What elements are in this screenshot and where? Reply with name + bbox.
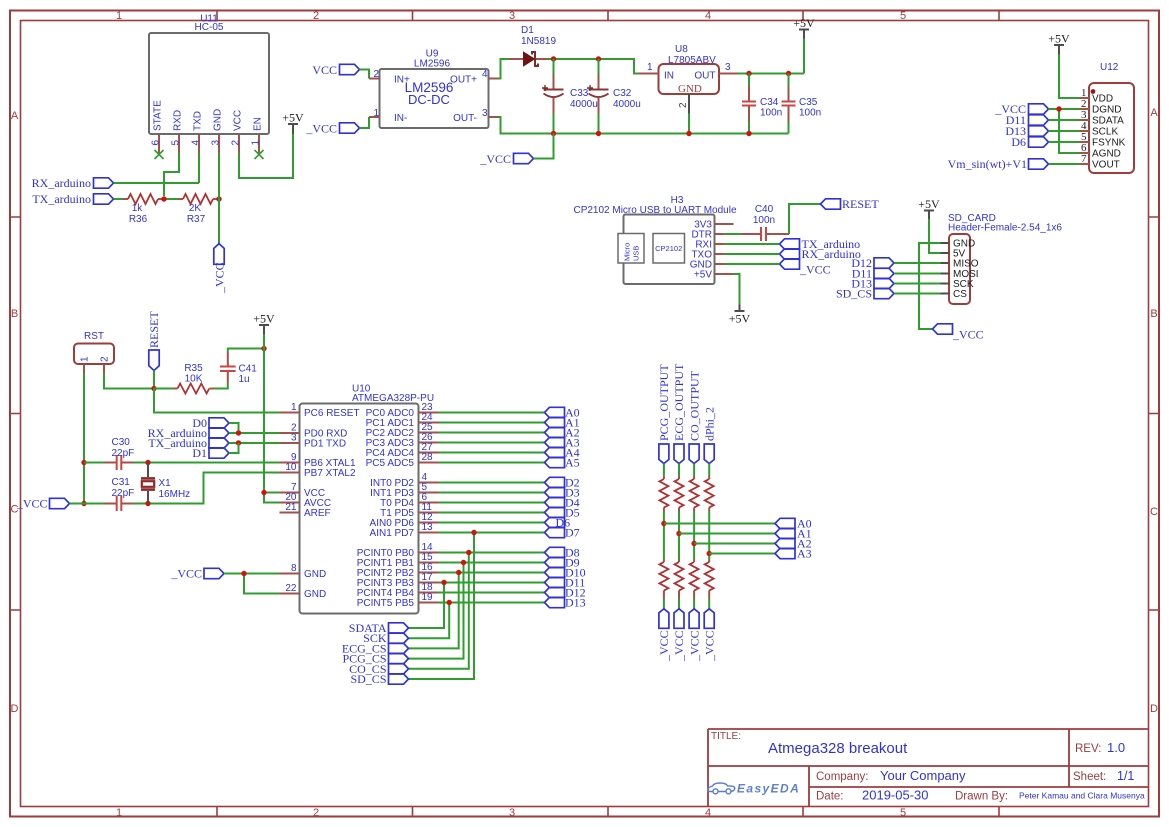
- junction node: [676, 531, 681, 536]
- U10 pin 24 PC1 ADC1: [419, 422, 439, 424]
- H3 pin TXO: [715, 253, 725, 255]
- net flag CO_CS: [349, 662, 408, 676]
- U11 pin 5 RXD: [178, 134, 180, 153]
- wire SD_CS to CS: [894, 293, 941, 295]
- net flag ECG_CS: [342, 641, 409, 655]
- U10 pin 20 AVCC: [280, 502, 300, 504]
- svg-text:+5V: +5V: [253, 312, 275, 326]
- SD pin GND: [941, 242, 950, 244]
- svg-text:_VCC: _VCC: [305, 122, 337, 136]
- svg-text:1.0: 1.0: [1107, 740, 1125, 755]
- junction node: [466, 550, 471, 555]
- power +5V (HC-05): [282, 111, 304, 135]
- net flag D12: [545, 586, 586, 600]
- svg-text:GND: GND: [678, 83, 702, 95]
- wire top rail C33 to C32: [599, 59, 640, 74]
- svg-text:A: A: [1150, 107, 1158, 119]
- wire U8 OUT rail: [738, 39, 805, 74]
- junction node: [786, 71, 791, 76]
- U11 pin 2 VCC: [238, 134, 240, 153]
- net flag TX_arduino (PD1): [148, 436, 229, 450]
- net flag A2: [545, 426, 580, 440]
- svg-text:VCC: VCC: [312, 63, 337, 77]
- svg-text:RST: RST: [84, 331, 104, 342]
- H3 pin +5V: [715, 273, 734, 275]
- wire to _VCC flag: [678, 599, 680, 609]
- svg-text:5: 5: [900, 807, 906, 819]
- svg-text:D6: D6: [1011, 135, 1026, 149]
- svg-text:1: 1: [116, 10, 122, 22]
- wire PCINT1 PB1 to D9: [439, 562, 545, 564]
- svg-text:3: 3: [291, 433, 297, 444]
- svg-text:16MHz: 16MHz: [159, 489, 191, 500]
- svg-text:4000u: 4000u: [613, 99, 641, 110]
- svg-text:PC6 RESET: PC6 RESET: [304, 408, 360, 419]
- net flag PCG_OUTPUT (vertical): [657, 364, 671, 464]
- junction node: [241, 571, 246, 576]
- net flag _VCC (below R37): [212, 244, 226, 294]
- wire R36 to R37: [163, 198, 178, 200]
- svg-text:3: 3: [482, 108, 488, 119]
- net flag A1: [775, 527, 812, 541]
- net flag ECG_OUTPUT (vertical): [672, 363, 686, 464]
- svg-text:3: 3: [211, 140, 222, 146]
- svg-text:D: D: [11, 703, 19, 715]
- wire divider mid: [708, 512, 710, 560]
- connector SD_CARD: [941, 213, 1063, 304]
- SD pin CS: [941, 293, 950, 295]
- svg-text:3: 3: [509, 10, 515, 22]
- svg-text:2: 2: [373, 69, 379, 80]
- net flag D3: [545, 486, 580, 500]
- junction node: [746, 71, 751, 76]
- svg-text:MISO: MISO: [953, 259, 979, 270]
- svg-text:R36: R36: [129, 214, 148, 225]
- capacitor C34 100n: [742, 74, 782, 134]
- svg-text:10: 10: [285, 462, 297, 473]
- svg-text:USB: USB: [632, 246, 641, 261]
- wire tap to A3: [709, 553, 775, 555]
- U10 pin 28 PC5 ADC5: [419, 462, 439, 464]
- wire PCINT0 PB0 to D8: [439, 552, 545, 554]
- svg-text:B: B: [11, 308, 18, 320]
- wire TXD vertical: [198, 153, 200, 183]
- net flag D10: [545, 566, 586, 580]
- wire RX_arduino to PD0: [229, 432, 280, 434]
- junction node: [261, 346, 266, 351]
- net flag A5: [545, 456, 580, 470]
- svg-text:+5V: +5V: [793, 16, 815, 30]
- svg-text:AREF: AREF: [304, 508, 331, 519]
- H3 pin 3V3: [715, 223, 734, 225]
- junction node: [151, 386, 156, 391]
- U12 pin 3 SDATA: [1079, 119, 1089, 121]
- junction node: [471, 530, 476, 535]
- junction node: [1056, 106, 1061, 111]
- crystal X1 16MHz: [141, 463, 190, 504]
- svg-text:HC-05: HC-05: [195, 22, 224, 33]
- svg-text:22pF: 22pF: [112, 448, 135, 459]
- svg-text:28: 28: [422, 452, 434, 463]
- H3 pin RXI: [715, 243, 725, 245]
- svg-text:Date:: Date:: [816, 791, 844, 803]
- svg-text:10K: 10K: [185, 374, 203, 385]
- svg-text:_VCC: _VCC: [16, 497, 48, 511]
- wire D0 to PD0: [229, 423, 239, 433]
- SD pin 5V: [941, 252, 950, 254]
- svg-text:_VCC: _VCC: [672, 630, 686, 662]
- svg-text:Peter Kamau and Clara Musenya: Peter Kamau and Clara Musenya: [1019, 791, 1145, 801]
- svg-text:Company:: Company:: [816, 771, 868, 783]
- title block: [708, 729, 1149, 807]
- svg-text:VOUT: VOUT: [1092, 160, 1120, 171]
- junction node: [236, 440, 241, 445]
- svg-text:4: 4: [705, 10, 711, 22]
- svg-text:_VCC: _VCC: [702, 630, 716, 662]
- wire bottom rail OUT-: [499, 117, 789, 134]
- wire RXD to RX_arduino: [164, 153, 179, 196]
- SD pin SCK: [941, 283, 950, 285]
- wire SCK tap: [409, 603, 450, 639]
- svg-text:A3: A3: [797, 547, 812, 561]
- svg-text:+5V: +5V: [729, 312, 751, 326]
- junction node: [161, 196, 166, 201]
- wire divider mid: [693, 512, 695, 560]
- svg-text:+5V: +5V: [1048, 32, 1070, 46]
- svg-text:R37: R37: [187, 214, 206, 225]
- svg-text:TX_arduino: TX_arduino: [32, 192, 91, 206]
- svg-text:+5V: +5V: [282, 111, 304, 125]
- resistor (upper, A1 divider): [675, 476, 684, 512]
- wire GND pin down to _VCC: [218, 153, 220, 244]
- wire _VCC row (C31): [70, 503, 105, 505]
- junction node: [261, 490, 266, 495]
- net flag Vm_sin(wt)+V1 (U12 VOUT): [948, 157, 1049, 171]
- svg-text:+5V: +5V: [918, 197, 940, 211]
- svg-text:D: D: [1150, 703, 1158, 715]
- wire tap to A1: [679, 533, 775, 535]
- module H3 CP2102: [573, 195, 736, 284]
- net flag _VCC (SD card): [933, 324, 984, 342]
- svg-text:_VCC: _VCC: [952, 328, 984, 342]
- junction node: [551, 131, 556, 136]
- resistor (upper, A2 divider): [690, 476, 699, 512]
- U10 pin 22 GND: [280, 593, 300, 595]
- wire D11 to SDATA: [1049, 119, 1080, 121]
- net flag _VCC (ATmega GND): [170, 567, 224, 581]
- U10 pin 2 PD0 RXD: [280, 432, 300, 434]
- U10 pin 16 PCINT2 PB2: [419, 572, 439, 574]
- wire CO_CS tap: [409, 553, 469, 669]
- wire reset node to PC6: [154, 389, 280, 413]
- svg-text:Sheet:: Sheet:: [1073, 771, 1106, 783]
- svg-text:2: 2: [231, 140, 242, 146]
- wire SDATA tap: [409, 583, 445, 629]
- H3 pin DTR: [715, 233, 725, 235]
- capacitor C35 100n: [782, 74, 822, 134]
- U11 pin 6 STATE: [158, 134, 160, 154]
- resistor (upper, A0 divider): [659, 476, 668, 512]
- net flag D1: [192, 446, 229, 460]
- svg-text:22pF: 22pF: [112, 488, 135, 499]
- svg-text:REV:: REV:: [1075, 743, 1101, 755]
- svg-text:_VCC: _VCC: [479, 152, 511, 166]
- svg-text:GND: GND: [213, 109, 224, 131]
- net flag _VCC (H3 GND): [780, 259, 831, 277]
- U12 pin 7 VOUT: [1079, 163, 1089, 165]
- net flag RESET (vertical): [147, 311, 161, 371]
- wire VCC pin to +5V: [239, 134, 293, 178]
- svg-text:4000u: 4000u: [570, 99, 598, 110]
- net flag D6: [545, 516, 571, 530]
- svg-text:3: 3: [509, 807, 515, 819]
- U10 pin 13 AIN1 PD7: [419, 532, 439, 534]
- svg-text:C31: C31: [112, 477, 131, 488]
- svg-text:Header-Female-2.54_1x6: Header-Female-2.54_1x6: [948, 223, 1062, 234]
- junction node: [707, 551, 712, 556]
- net flag CO_OUTPUT (vertical): [687, 370, 701, 463]
- power +5V (H3, inverted): [729, 305, 751, 326]
- svg-text:2: 2: [100, 356, 111, 362]
- svg-text:C41: C41: [239, 364, 258, 375]
- wire Vm to VOUT: [1049, 163, 1080, 165]
- wire TXO: [725, 253, 780, 255]
- resistor (lower, A0 divider): [659, 559, 668, 599]
- svg-text:C35: C35: [799, 97, 818, 108]
- wire T1 PD5 to D5: [439, 512, 545, 514]
- svg-text:U12: U12: [1100, 62, 1119, 73]
- RST pin 1: [83, 364, 85, 374]
- EasyEDA logo: [708, 783, 735, 794]
- junction node: [441, 580, 446, 585]
- net flag _VCC (crystal gnd): [16, 497, 70, 511]
- net flag RESET: [821, 197, 880, 211]
- capacitor C32 4000u: [587, 59, 641, 134]
- svg-text:7: 7: [1081, 153, 1087, 165]
- resistor R37 2K: [178, 194, 218, 225]
- wire RX_arduino to TXD: [114, 182, 200, 184]
- svg-text:X1: X1: [159, 478, 172, 489]
- svg-text:_VCC: _VCC: [799, 263, 831, 277]
- junction node: [551, 56, 556, 61]
- svg-text:1u: 1u: [239, 374, 250, 385]
- svg-text:AGND: AGND: [1092, 149, 1121, 160]
- IC U10 ATMEGA328P-PU: [280, 384, 439, 614]
- junction node: [691, 541, 696, 546]
- svg-text:RX_arduino: RX_arduino: [32, 176, 91, 190]
- svg-text:PCINT5 PB5: PCINT5 PB5: [357, 598, 415, 609]
- net flag D9: [545, 556, 580, 570]
- wire SD GND to _VCC: [919, 243, 941, 329]
- capacitor C41 1u: [220, 352, 257, 385]
- svg-text:6: 6: [151, 140, 162, 146]
- wire C41 top to +5V line: [228, 349, 264, 353]
- diode D1 1N5819: [510, 25, 557, 66]
- svg-text:19: 19: [422, 592, 434, 603]
- U12 pin 6 AGND: [1079, 152, 1089, 154]
- net flag D2: [545, 476, 580, 490]
- wire PC2 ADC2 to A2: [439, 432, 545, 434]
- wire PCINT3 PB3 to D11: [439, 582, 545, 584]
- wire +5V pin down: [733, 274, 740, 305]
- net flag TX_arduino: [32, 192, 113, 206]
- power +5V (U8 output): [793, 16, 815, 39]
- wire D11 to MOSI: [894, 273, 941, 275]
- wire VCC to U9 IN+: [360, 70, 370, 79]
- svg-text:1: 1: [251, 140, 262, 146]
- resistor R36 1k: [123, 194, 163, 225]
- svg-text:5: 5: [171, 140, 182, 146]
- net flag _VCC (divider 3): [687, 609, 701, 662]
- U10 pin 7 VCC: [280, 492, 300, 494]
- svg-text:C33: C33: [570, 88, 589, 99]
- svg-text:4: 4: [705, 807, 711, 819]
- net flag D7: [545, 526, 580, 540]
- net flag SD_CS (SD CS): [836, 287, 894, 301]
- net flag VCC (U9 input): [312, 63, 359, 77]
- wire _VCC to rail: [534, 134, 554, 159]
- wire +5V to U12 VDD: [1059, 55, 1079, 99]
- svg-text:4: 4: [191, 140, 202, 146]
- wire GND: [725, 263, 780, 265]
- U10 pin 25 PC2 ADC2: [419, 432, 439, 434]
- svg-text:TITLE:: TITLE:: [711, 731, 741, 742]
- svg-text:1: 1: [373, 108, 379, 119]
- svg-text:IN-: IN-: [394, 113, 407, 124]
- U12 pin 5 FSYNK: [1079, 141, 1089, 143]
- resistor (lower, A3 divider): [705, 559, 714, 599]
- svg-text:2: 2: [313, 10, 319, 22]
- U10 pin 19 PCINT5 PB5: [419, 602, 439, 604]
- svg-text:Atmega328 breakout: Atmega328 breakout: [768, 740, 908, 757]
- wire +5V to SD 5V pin: [929, 219, 941, 253]
- svg-text:dPhi_2: dPhi_2: [702, 407, 716, 441]
- junction node: [596, 56, 601, 61]
- U12 pin 2 DGND: [1079, 108, 1089, 110]
- wire DGND with branch to AGND: [1049, 109, 1080, 153]
- wire D1 cathode to rail: [548, 58, 599, 60]
- wire PCINT2 PB2 to D10: [439, 572, 545, 574]
- svg-text:TXD: TXD: [193, 111, 204, 131]
- svg-text:EN: EN: [253, 117, 264, 131]
- U9 pin 3 OUT-: [489, 116, 499, 118]
- wire RST pin1 down: [83, 374, 85, 504]
- svg-text:GND: GND: [304, 569, 326, 580]
- svg-text:C40: C40: [755, 204, 774, 215]
- net flag SDATA: [349, 621, 409, 635]
- U10 pin 11 T1 PD5: [419, 512, 439, 514]
- net flag RX_arduino (H3 TXO): [780, 247, 861, 261]
- wire PCINT4 PB4 to D12: [439, 592, 545, 594]
- svg-text:21: 21: [285, 502, 297, 513]
- svg-text:_VCC: _VCC: [687, 630, 701, 662]
- svg-text:PD1 TXD: PD1 TXD: [304, 439, 346, 450]
- U10 pin 18 PCINT4 PB4: [419, 592, 439, 594]
- H3 pin GND: [715, 263, 725, 265]
- svg-text:L7805ABV: L7805ABV: [668, 55, 716, 66]
- wire RESET flag to node: [153, 371, 155, 389]
- svg-text:ECG_OUTPUT: ECG_OUTPUT: [672, 363, 686, 441]
- wire AIN1 PD7 to D7: [439, 532, 545, 534]
- svg-text:RXD: RXD: [173, 110, 184, 131]
- svg-text:2K: 2K: [189, 203, 202, 214]
- svg-text:C30: C30: [112, 437, 131, 448]
- svg-text:CO_OUTPUT: CO_OUTPUT: [687, 370, 701, 441]
- U10 pin 21 AREF: [280, 512, 300, 514]
- svg-text:1: 1: [647, 62, 653, 73]
- wire TX_arduino to PD1: [229, 442, 280, 444]
- wire _VCC to GND pins: [224, 574, 280, 594]
- svg-text:CP2102: CP2102: [655, 244, 682, 253]
- IC U9 LM2596: [369, 49, 499, 129]
- regulator U8 L7805ABV: [639, 44, 738, 134]
- svg-text:PCG_OUTPUT: PCG_OUTPUT: [657, 364, 671, 441]
- svg-text:D1: D1: [192, 446, 207, 460]
- svg-text:B: B: [1150, 308, 1157, 320]
- svg-text:_VCC: _VCC: [212, 262, 226, 294]
- U10 pin 6 T0 PD4: [419, 502, 439, 504]
- junction node: [145, 460, 150, 465]
- svg-text:100n: 100n: [753, 215, 775, 226]
- svg-text:LM2596: LM2596: [414, 59, 451, 70]
- net flag dPhi_2 (vertical): [702, 407, 716, 464]
- capacitor C30 22pF: [84, 437, 134, 470]
- junction node: [81, 460, 86, 465]
- U10 pin 17 PCINT3 PB3: [419, 582, 439, 584]
- module U11 HC-05: [149, 14, 269, 160]
- net flag _VCC (U12 DGND): [994, 102, 1048, 116]
- svg-text:CS: CS: [953, 289, 967, 300]
- wire ECG_OUTPUT to divider top: [678, 464, 680, 477]
- svg-text:22: 22: [285, 583, 297, 594]
- no-connect X pin6: [155, 150, 164, 159]
- U10 pin 14 PCINT0 PB0: [419, 552, 439, 554]
- svg-text:R35: R35: [184, 363, 203, 374]
- U10 pin 15 PCINT1 PB1: [419, 562, 439, 564]
- svg-text:+5V: +5V: [694, 270, 712, 281]
- net flag D11: [545, 576, 586, 590]
- U10 pin 4 INT0 PD2: [419, 482, 439, 484]
- svg-text:3: 3: [725, 62, 731, 73]
- U11 pin 3 GND: [218, 134, 220, 153]
- svg-text:1: 1: [80, 356, 91, 362]
- junction node: [236, 430, 241, 435]
- net flag RX_arduino (PD0): [148, 426, 229, 440]
- svg-text:100n: 100n: [799, 108, 821, 119]
- net flag D13: [545, 596, 586, 610]
- junction node: [746, 131, 751, 136]
- SD pin MOSI: [941, 273, 950, 275]
- U10 pin 12 AIN0 PD6: [419, 522, 439, 524]
- svg-text:VCC: VCC: [233, 110, 244, 131]
- net flag D11 (SD MOSI): [852, 267, 894, 281]
- net flag D4: [545, 496, 580, 510]
- svg-text:U8: U8: [675, 44, 688, 55]
- junction node: [686, 131, 691, 136]
- svg-text:Micro: Micro: [623, 243, 632, 261]
- svg-text:D1: D1: [521, 25, 534, 36]
- svg-text:_VCC: _VCC: [657, 630, 671, 662]
- U8 pin 3 OUT: [719, 73, 738, 75]
- wire to _VCC flag: [693, 599, 695, 609]
- wire C40 to RESET: [789, 204, 821, 234]
- svg-text:A5: A5: [565, 456, 580, 470]
- wire RXI: [725, 243, 780, 245]
- net flag A3: [545, 436, 580, 450]
- U12 pin 1 VDD: [1079, 97, 1089, 99]
- junction node: [461, 560, 466, 565]
- svg-text:2019-05-30: 2019-05-30: [862, 788, 929, 803]
